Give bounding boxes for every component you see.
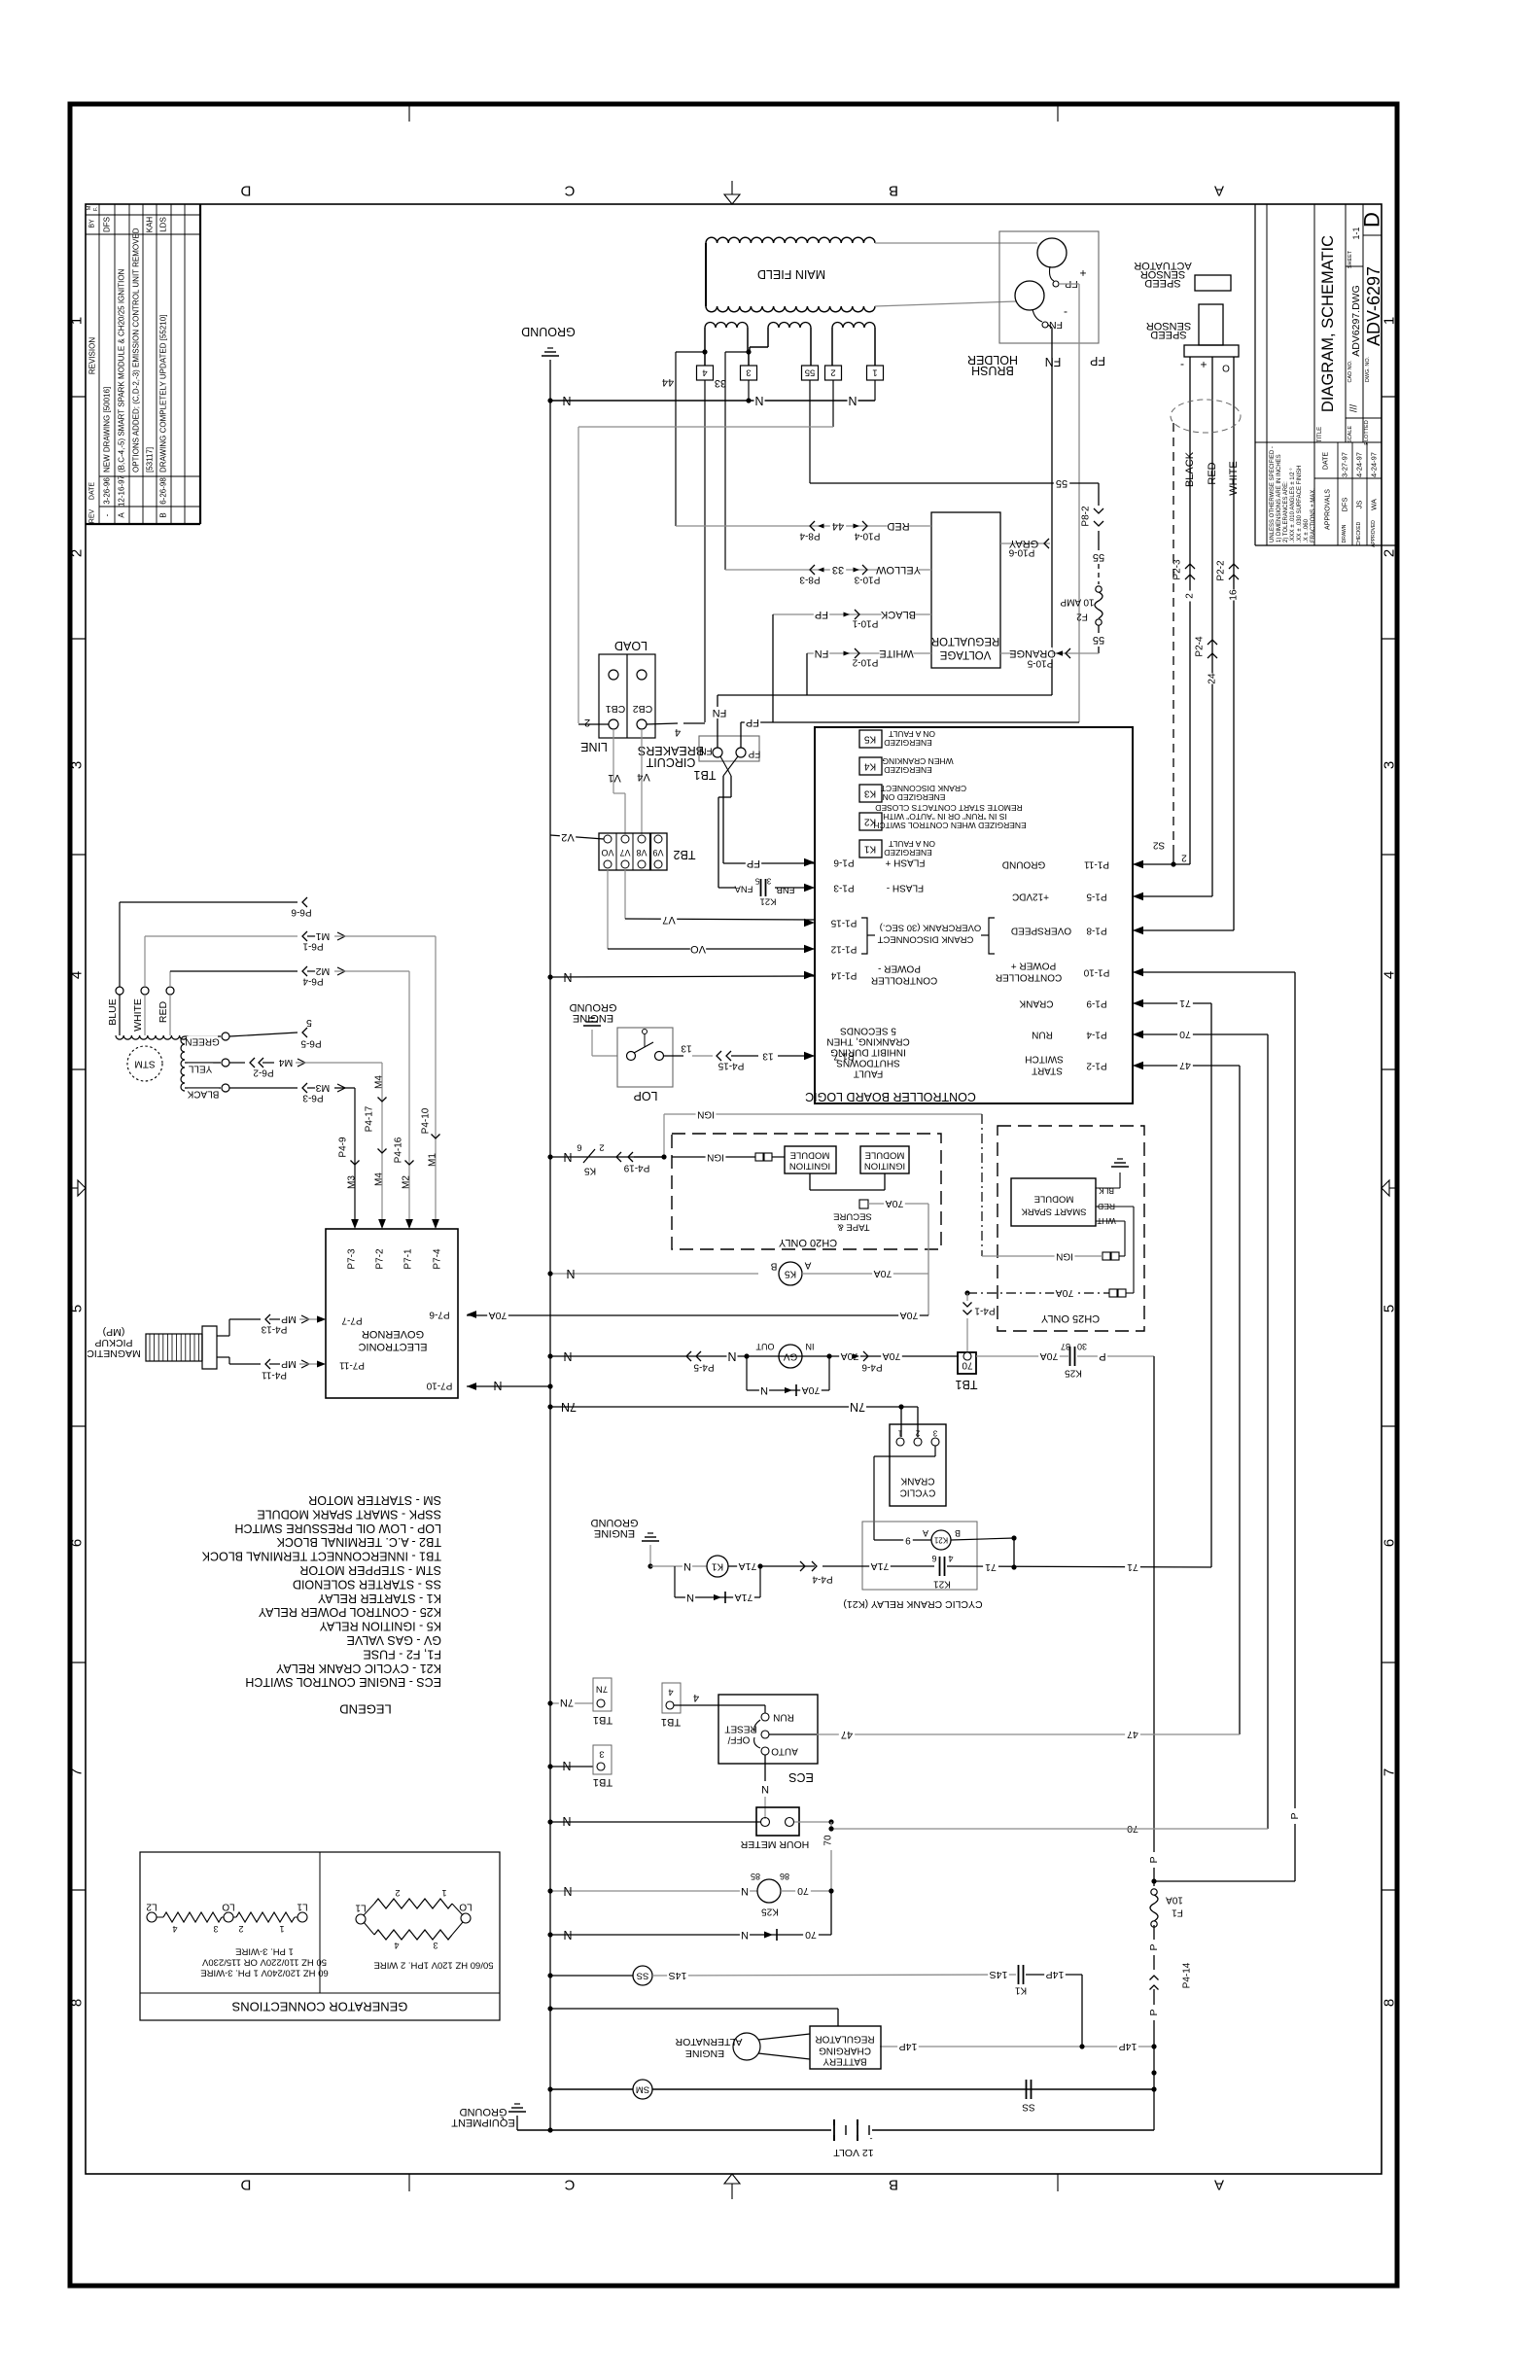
svg-text:P1-15: P1-15 [830,918,857,928]
svg-text:71A: 71A [735,1592,753,1603]
svg-text:8: 8 [69,1999,86,2007]
svg-text:DFS: DFS [103,217,112,232]
svg-text:CRANK DISCONNECT: CRANK DISCONNECT [877,934,973,945]
svg-text:SS - STARTER SOLENOID: SS - STARTER SOLENOID [293,1577,441,1591]
svg-text:ECS: ECS [788,1770,814,1784]
svg-text:FP: FP [1090,354,1105,367]
svg-text:5: 5 [306,1017,312,1029]
svg-text:B: B [159,512,168,517]
svg-text:FLASH -: FLASH - [887,883,924,893]
svg-text:16: 16 [1229,589,1240,601]
svg-text:GROUND: GROUND [591,1517,639,1528]
svg-text:V4: V4 [637,771,649,783]
svg-text:N: N [563,1884,572,1898]
svg-text:CAD NO.: CAD NO. [1347,360,1353,382]
svg-text:ALTERNATOR: ALTERNATOR [675,2036,742,2047]
svg-text:FNA: FNA [734,884,753,894]
svg-text:SSPK - SMART SPARK MODULE: SSPK - SMART SPARK MODULE [257,1507,441,1521]
svg-text:CYCLIC CRANK RELAY (K21): CYCLIC CRANK RELAY (K21) [843,1598,982,1610]
svg-text:CONTROLLER: CONTROLLER [996,972,1062,983]
svg-text:IGN: IGN [697,1109,715,1120]
svg-text:-: - [103,513,112,516]
svg-text:OUT: OUT [755,1342,775,1351]
svg-text:LO: LO [222,1902,235,1912]
svg-text:N: N [562,1759,571,1772]
svg-text:P1-9: P1-9 [1086,998,1107,1009]
svg-text:TB1: TB1 [955,1378,977,1391]
svg-text:5: 5 [1382,1305,1398,1312]
svg-text:N: N [683,1560,691,1572]
svg-text:P: P [1148,1943,1160,1950]
svg-text:INHIBIT DURING: INHIBIT DURING [830,1047,906,1058]
svg-text:K21: K21 [933,1579,951,1590]
svg-text:SM - STARTER MOTOR: SM - STARTER MOTOR [308,1493,441,1507]
svg-text:APPROVED: APPROVED [1371,520,1377,547]
svg-text:D: D [1360,212,1384,227]
svg-text:1: 1 [69,317,86,325]
svg-text:P7-11: P7-11 [339,1360,365,1371]
svg-text:K25 - CONTROL POWER RELAY: K25 - CONTROL POWER RELAY [258,1605,441,1619]
svg-text:B: B [889,2177,898,2193]
svg-text:FN: FN [1045,355,1062,368]
svg-text:(B,C-4,-5) SMART SPARK MODULE: (B,C-4,-5) SMART SPARK MODULE & CH20/25 … [118,268,126,472]
svg-text:ADV6297.DWG: ADV6297.DWG [1350,285,1362,357]
svg-text:85: 85 [751,1872,760,1881]
svg-text:UNLESS OTHERWISE SPECIFIED -: UNLESS OTHERWISE SPECIFIED - [1270,446,1276,542]
svg-text:P4-14: P4-14 [1182,1962,1193,1988]
svg-text:4: 4 [668,1687,673,1697]
svg-text:LINE: LINE [580,740,608,753]
svg-text:70A: 70A [489,1310,507,1321]
svg-text:P4-9: P4-9 [338,1137,349,1158]
svg-text:SS: SS [1022,2102,1035,2113]
svg-text:44: 44 [832,520,844,532]
svg-text:70A: 70A [802,1384,821,1396]
svg-text:A: A [118,512,126,518]
svg-text:M4: M4 [374,1172,385,1186]
svg-text:CH25 ONLY: CH25 ONLY [1040,1312,1100,1324]
svg-text:1: 1 [279,1924,284,1934]
svg-text:CRANK: CRANK [900,1476,934,1487]
svg-text:CONTROLLER: CONTROLLER [871,975,937,986]
svg-text:70A: 70A [900,1310,919,1321]
svg-text:GROUND: GROUND [1002,859,1045,870]
svg-text:STM - STEPPER MOTOR: STM - STEPPER MOTOR [299,1563,441,1577]
svg-text:71A: 71A [871,1560,890,1572]
svg-text:P1-5: P1-5 [1086,892,1107,902]
svg-text:47: 47 [1127,1729,1138,1740]
svg-text:12 VOLT: 12 VOLT [833,2147,874,2158]
svg-text:P1-14: P1-14 [830,970,857,981]
svg-text:P: P [1148,1856,1160,1863]
svg-text:7N: 7N [596,1684,608,1695]
svg-text:D: D [240,183,251,199]
svg-text:ADV-6297: ADV-6297 [1364,266,1383,346]
svg-text:F.: F. [93,206,99,211]
svg-text:C: C [564,183,575,199]
svg-text:P1-11: P1-11 [1084,859,1109,870]
svg-text:2: 2 [1382,549,1398,557]
svg-text:70A: 70A [886,1198,904,1209]
svg-text:-: - [1180,359,1184,372]
svg-text:K5: K5 [583,1166,596,1176]
svg-text:P4-16: P4-16 [394,1137,404,1163]
svg-text:M3: M3 [316,1082,331,1094]
svg-text:K5: K5 [784,1269,796,1279]
svg-text:(MP): (MP) [103,1326,125,1338]
svg-text:2: 2 [584,717,590,728]
svg-text:DIAGRAM, SCHEMATIC: DIAGRAM, SCHEMATIC [1319,235,1337,412]
svg-text:P7-2: P7-2 [375,1248,386,1270]
svg-text:FP: FP [815,609,828,620]
svg-text:M1: M1 [428,1153,438,1167]
svg-text:P2-3: P2-3 [1172,559,1183,580]
svg-text:S2: S2 [1152,840,1165,851]
svg-text:1: 1 [441,1888,446,1898]
svg-text:FN: FN [699,746,712,756]
svg-text:REVISION: REVISION [88,337,97,374]
svg-text:8: 8 [1382,1999,1398,2007]
svg-text:SS: SS [637,1971,649,1981]
svg-text:6: 6 [1382,1539,1398,1547]
svg-text:60 HZ 120/240V 1 PH. 3-WIRE: 60 HZ 120/240V 1 PH. 3-WIRE [200,1968,328,1978]
svg-text:P1-10: P1-10 [1083,967,1109,978]
svg-text:BATTERY: BATTERY [822,2056,867,2067]
svg-text:2: 2 [395,1888,400,1898]
svg-text:CYCLIC: CYCLIC [900,1487,936,1498]
svg-text:GV: GV [783,1351,797,1362]
svg-text:LDS: LDS [159,217,168,232]
svg-text:3: 3 [746,367,751,378]
svg-text:TB1: TB1 [661,1716,681,1728]
svg-text:REMOTE START CONTACTS CLOSED: REMOTE START CONTACTS CLOSED [875,803,1022,813]
svg-text:P2-4: P2-4 [1195,636,1206,657]
svg-text:3: 3 [69,761,86,769]
svg-text:RED: RED [1207,462,1218,484]
svg-text:IGNITION: IGNITION [789,1161,830,1172]
svg-text:DRAWING COMPLETELY UPDATED [55: DRAWING COMPLETELY UPDATED [55210] [159,315,168,472]
svg-text:12-16-97: 12-16-97 [118,474,126,507]
svg-text:6: 6 [69,1539,86,1547]
svg-text:B: B [889,183,898,199]
svg-text:GROUND: GROUND [521,325,576,338]
svg-text:YELLOW: YELLOW [875,564,920,576]
svg-text:JS: JS [1355,501,1364,509]
svg-text:N: N [761,1783,769,1795]
svg-text:V1: V1 [608,772,620,784]
svg-text:86: 86 [780,1872,789,1881]
svg-text:P4-1: P4-1 [974,1306,996,1316]
svg-text:HOUR METER: HOUR METER [740,1838,809,1850]
svg-text:IGNITION: IGNITION [864,1161,905,1172]
svg-text:14S: 14S [990,1969,1008,1980]
svg-text:P10-6: P10-6 [1008,547,1034,558]
svg-text:70: 70 [805,1929,817,1941]
svg-text:70A: 70A [1056,1287,1074,1299]
svg-text:N: N [563,1349,572,1363]
svg-text:1: 1 [897,1429,902,1438]
svg-text:PLOTTED: PLOTTED [1364,420,1370,444]
svg-text:FRACTIONS ±: FRACTIONS ± MAX. [1311,488,1316,542]
svg-text:GREEN: GREEN [185,1036,220,1047]
svg-text:6: 6 [931,1554,936,1563]
svg-text:N: N [563,1928,572,1942]
svg-text:P1-6: P1-6 [833,857,855,868]
svg-text:P1-2: P1-2 [1086,1061,1107,1071]
svg-text:2: 2 [69,549,86,557]
svg-text:A: A [1214,2177,1224,2193]
svg-text:BY: BY [89,219,96,228]
svg-text:N: N [566,1267,575,1280]
svg-text:V7: V7 [619,848,630,857]
svg-text:REGULATOR: REGULATOR [815,2034,874,2045]
svg-text:55: 55 [1093,634,1104,646]
svg-text:7: 7 [69,1768,86,1776]
svg-text:TAPE &: TAPE & [837,1222,870,1233]
svg-text:CB1: CB1 [606,703,626,715]
svg-text:F2: F2 [1076,612,1088,622]
svg-text:4: 4 [675,726,681,738]
svg-text:24: 24 [1207,673,1218,684]
svg-text:SMART SPARK: SMART SPARK [1021,1207,1087,1217]
svg-text:71: 71 [985,1561,997,1573]
svg-text:IN: IN [806,1342,815,1351]
svg-text:3: 3 [766,877,771,886]
svg-text:A: A [923,1528,928,1538]
svg-text:FNB: FNB [777,885,795,895]
svg-text:1) DIMENSIONS ARE IN INCHES: 1) DIMENSIONS ARE IN INCHES [1277,454,1282,542]
svg-text:2: 2 [238,1924,243,1934]
svg-text:K1: K1 [1014,1985,1027,1996]
svg-text:SWITCH: SWITCH [1025,1054,1063,1065]
svg-text:SHUTDOWNS: SHUTDOWNS [836,1058,900,1068]
svg-text:DATE: DATE [1323,452,1330,470]
svg-text:AUTO: AUTO [771,1746,798,1757]
svg-text:[53117]: [53117] [146,447,155,472]
svg-text:TITLE: TITLE [1317,427,1323,442]
svg-text:ACTUATOR: ACTUATOR [1134,260,1192,271]
svg-text:LOP - LOW OIL PRESSURE SWITCH: LOP - LOW OIL PRESSURE SWITCH [234,1522,441,1535]
svg-text:POWER +: POWER + [1011,961,1057,971]
svg-text:10A: 10A [1166,1895,1183,1906]
svg-text:3: 3 [932,1429,937,1438]
svg-text:.X ± .060: .X ± .060 [1304,518,1310,542]
svg-text:REV: REV [89,508,96,523]
svg-text:P1-4: P1-4 [1086,1030,1107,1040]
svg-text:GROUND: GROUND [460,2106,507,2117]
svg-text:OFF/: OFF/ [727,1734,750,1745]
svg-text:BLUE: BLUE [107,998,119,1025]
svg-text:3-27-97: 3-27-97 [1341,452,1349,477]
svg-text:+: + [1079,266,1086,280]
svg-text:55: 55 [805,367,816,378]
svg-text:N: N [727,1349,736,1363]
svg-text:N: N [760,1384,768,1396]
svg-text:50 HZ 110/220V OR 115/230V: 50 HZ 110/220V OR 115/230V [201,1957,327,1968]
svg-text:CONTROLLER BOARD LOGIC: CONTROLLER BOARD LOGIC [805,1090,976,1103]
svg-text:P4-10: P4-10 [421,1107,432,1134]
svg-text:13: 13 [762,1051,774,1062]
svg-text:14P: 14P [899,2041,918,2052]
svg-text:M4: M4 [374,1075,385,1089]
svg-text:M1: M1 [316,930,331,942]
svg-text:P: P [1148,2009,1160,2015]
svg-text:71A: 71A [739,1560,757,1572]
svg-text:RUN: RUN [1032,1030,1053,1040]
svg-text:P10-5: P10-5 [1027,658,1053,669]
svg-text:P4-17: P4-17 [365,1105,375,1132]
svg-text:-: - [870,2134,873,2144]
svg-text:50/60 HZ 120V 1PH. 2 WIRE: 50/60 HZ 120V 1PH. 2 WIRE [373,1960,493,1971]
svg-text:33: 33 [832,564,844,576]
svg-text:K1 - STARTER RELAY: K1 - STARTER RELAY [317,1592,441,1605]
svg-text:N: N [848,394,857,407]
svg-text:POWER -: POWER - [878,963,921,974]
svg-text:BREAKERS: BREAKERS [638,744,704,757]
svg-text:4: 4 [693,1692,699,1703]
svg-text:OVERCRANK (30 SEC.): OVERCRANK (30 SEC.) [880,923,982,933]
svg-text:FN: FN [713,707,727,718]
svg-text:FLASH +: FLASH + [885,857,925,868]
svg-text:70: 70 [1179,1029,1191,1040]
svg-text:10 AMP: 10 AMP [1060,597,1094,608]
svg-text:IGN: IGN [707,1152,724,1163]
svg-text:N: N [562,1814,571,1828]
svg-text:TB1: TB1 [693,768,716,782]
svg-text:K5: K5 [863,734,876,745]
svg-text:47: 47 [1179,1060,1191,1071]
svg-text:N: N [741,1929,749,1941]
svg-text:FP: FP [748,749,760,759]
svg-text:70A: 70A [1040,1350,1059,1362]
svg-text:1: 1 [1382,317,1398,325]
svg-text:14P: 14P [1119,2041,1137,2052]
svg-text:30: 30 [1077,1342,1087,1351]
svg-text:V9: V9 [652,848,663,857]
svg-text:N: N [562,394,571,407]
svg-text:DWG. NO.: DWG. NO. [1365,356,1371,382]
svg-text:K1: K1 [711,1561,723,1572]
svg-text:A: A [1214,183,1224,199]
svg-text:FN: FN [1049,319,1063,331]
svg-text:MODULE: MODULE [865,1150,905,1161]
svg-text:3: 3 [433,1941,437,1950]
svg-text:M4: M4 [279,1057,294,1068]
svg-text:7N: 7N [561,1400,577,1414]
svg-text:WHITE: WHITE [879,647,913,659]
svg-text:70: 70 [823,1835,834,1846]
svg-text:///: /// [1349,404,1360,413]
svg-text:CHECKED: CHECKED [1356,521,1362,545]
svg-text:C: C [564,2177,575,2193]
svg-text:BLACK: BLACK [880,609,916,620]
svg-text:K3: K3 [863,788,876,799]
svg-text:WHITE: WHITE [132,998,144,1032]
svg-text:6: 6 [577,1142,581,1153]
svg-text:DFS: DFS [1341,498,1349,512]
svg-text:5: 5 [754,877,759,886]
svg-text:BLACK: BLACK [187,1089,219,1100]
svg-text:M2: M2 [402,1175,412,1189]
svg-text:V7: V7 [662,914,675,926]
svg-text:TB1: TB1 [593,1714,612,1726]
svg-text:CB2: CB2 [633,703,653,715]
svg-text:ON A FAULT: ON A FAULT [889,839,935,849]
svg-text:P4-4: P4-4 [812,1574,833,1585]
svg-text:VO: VO [690,943,706,955]
svg-text:A: A [804,1260,811,1271]
svg-text:HOLDER: HOLDER [967,353,1018,367]
svg-text:47: 47 [841,1729,853,1740]
svg-text:33: 33 [715,377,726,389]
svg-text:4-24-97: 4-24-97 [1355,452,1364,477]
svg-text:RED: RED [887,520,909,532]
svg-text:DRAWN: DRAWN [1342,524,1347,542]
svg-text:MODULE: MODULE [790,1150,830,1161]
svg-text:TB1 - INNERCONNECT TERMINAL BL: TB1 - INNERCONNECT TERMINAL BLOCK [201,1550,441,1563]
svg-text:14S: 14S [669,1970,687,1981]
svg-text:V2: V2 [561,831,574,843]
svg-text:P6-5: P6-5 [300,1038,322,1049]
svg-text:SENSOR: SENSOR [1146,320,1192,332]
svg-text:7: 7 [1382,1768,1398,1776]
svg-text:P10-2: P10-2 [852,657,878,668]
svg-text:6-26-98: 6-26-98 [159,477,168,505]
svg-text:NEW DRAWING [50016]: NEW DRAWING [50016] [103,387,112,472]
svg-text:5: 5 [69,1305,86,1312]
svg-text:CRANK: CRANK [1019,998,1053,1009]
svg-text:4: 4 [948,1554,953,1563]
svg-text:P4-11: P4-11 [262,1370,287,1381]
svg-text:P6-2: P6-2 [253,1067,274,1078]
svg-text:4: 4 [69,971,86,979]
svg-text:P7-3: P7-3 [347,1248,358,1270]
svg-text:P1-8: P1-8 [1086,926,1107,936]
svg-text:OPTIONS ADDED; (C,D-2,-3) EMIS: OPTIONS ADDED; (C,D-2,-3) EMISSION CONTR… [132,227,141,472]
svg-text:L1: L1 [355,1903,367,1913]
svg-text:+12VDC: +12VDC [1012,892,1049,902]
svg-text:MP: MP [281,1358,297,1370]
svg-text:FN: FN [815,647,829,659]
svg-text:O: O [1222,363,1230,373]
svg-text:RESET: RESET [724,1724,756,1734]
svg-text:K5 - IGNITION RELAY: K5 - IGNITION RELAY [319,1620,441,1633]
svg-text:MODULE: MODULE [1034,1194,1074,1205]
svg-text:P8-4: P8-4 [799,531,821,542]
svg-text:FP: FP [746,717,759,728]
svg-text:APPROVALS: APPROVALS [1325,489,1332,530]
svg-text:GENERATOR CONNECTIONS: GENERATOR CONNECTIONS [231,2000,407,2014]
svg-text:9: 9 [905,1535,911,1546]
svg-text:K1: K1 [863,844,876,855]
svg-text:B: B [955,1528,961,1538]
svg-text:P6-6: P6-6 [291,907,312,918]
svg-text:RED: RED [157,1000,169,1023]
svg-text:P4-6: P4-6 [861,1362,883,1373]
svg-text:FP: FP [747,857,760,869]
svg-text:K21: K21 [933,1536,948,1545]
svg-text:K25: K25 [761,1907,779,1917]
svg-text:D: D [240,2177,251,2193]
svg-text:LEGEND: LEGEND [339,1702,391,1717]
svg-text:71: 71 [1179,997,1191,1009]
svg-text:P2-2: P2-2 [1216,560,1227,581]
svg-text:ORANGE: ORANGE [1009,647,1056,659]
svg-text:BLACK: BLACK [1184,451,1196,487]
svg-text:WHEN CRANKING: WHEN CRANKING [882,756,953,766]
svg-text:P7-10: P7-10 [426,1381,452,1391]
svg-text:ENGINE: ENGINE [685,2047,724,2059]
